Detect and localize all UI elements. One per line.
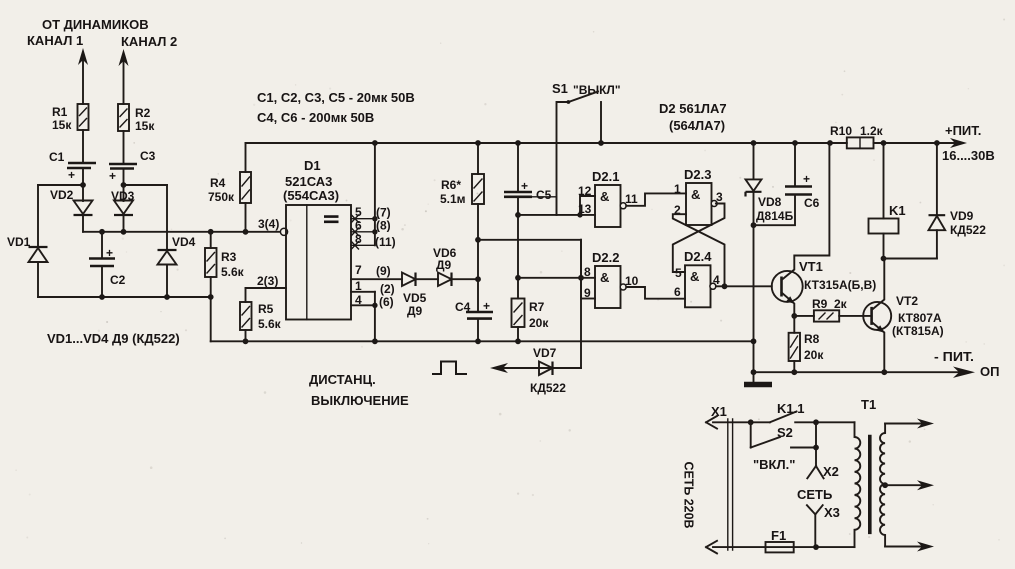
mains bottom wire with left arrow <box>713 546 855 548</box>
junction VD6/C4 <box>475 276 481 282</box>
svg-text:C1: C1 <box>49 150 65 164</box>
wire pin 12 tie <box>580 196 595 215</box>
wire bottom bus y297 <box>38 296 211 298</box>
svg-text:"ВЫКЛ": "ВЫКЛ" <box>573 83 621 97</box>
svg-text:(8): (8) <box>376 219 391 233</box>
resistor R8 <box>789 316 825 362</box>
pin 7 output wire <box>351 278 402 280</box>
svg-text:3: 3 <box>716 190 723 204</box>
wire pin 8 line <box>518 277 595 279</box>
op-amp comparator D1 <box>283 158 351 320</box>
svg-text:5.1м: 5.1м <box>440 192 466 206</box>
svg-text:- ПИТ.: - ПИТ. <box>934 349 974 364</box>
diode VD6 <box>433 246 457 286</box>
pulse symbol <box>432 362 467 375</box>
capacitor C4 <box>455 299 493 319</box>
svg-text:КД522: КД522 <box>950 223 986 237</box>
svg-text:(КТ815А): (КТ815А) <box>892 324 944 338</box>
diode VD7 <box>530 346 566 395</box>
pin 8 wire with X <box>351 232 396 249</box>
wire bus y232 to comparator input <box>83 231 281 233</box>
svg-text:12: 12 <box>578 184 592 198</box>
svg-text:КАНАЛ 2: КАНАЛ 2 <box>121 34 177 49</box>
+ПИТ arrow <box>950 138 967 148</box>
svg-text:4: 4 <box>355 293 362 307</box>
junction C6 line <box>751 222 757 228</box>
svg-text:C2: C2 <box>110 273 126 287</box>
svg-text:2(3): 2(3) <box>257 274 278 288</box>
capacitor C1 <box>49 150 96 182</box>
wire D2.2 feed y240 <box>478 239 581 241</box>
resistor R10 <box>830 124 884 148</box>
svg-text:VD5: VD5 <box>403 291 427 305</box>
svg-text:10: 10 <box>625 274 639 288</box>
svg-text:3(4): 3(4) <box>258 217 279 231</box>
svg-text:ОП: ОП <box>980 364 999 379</box>
ОП arrow <box>953 367 975 378</box>
svg-text:&: & <box>691 187 700 202</box>
junction R4 bottom <box>243 229 249 235</box>
svg-text:5.6к: 5.6к <box>258 317 282 331</box>
svg-text:C6: C6 <box>804 196 820 210</box>
svg-text:(9): (9) <box>376 264 391 278</box>
transistor VT2 <box>863 259 943 373</box>
secondary bottom lead arrow <box>885 546 924 548</box>
svg-text:C3: C3 <box>140 149 156 163</box>
wire bus right y185 <box>124 184 168 186</box>
wire R2 to C3 <box>123 131 125 163</box>
diode VD3 <box>111 189 135 215</box>
svg-text:КТ315А(Б,В): КТ315А(Б,В) <box>804 278 876 292</box>
connector X2 <box>807 422 839 479</box>
svg-text:D2.3: D2.3 <box>684 167 711 182</box>
logic gate D2.4 <box>674 249 720 307</box>
capacitor C3 <box>109 149 156 183</box>
capacitor C2 <box>89 246 126 287</box>
svg-text:&: & <box>600 189 609 204</box>
svg-text:"ВКЛ.": "ВКЛ." <box>753 457 795 472</box>
relay contact K1.1 <box>748 401 819 425</box>
wire pin 9 line <box>581 298 595 300</box>
resistor R9 <box>794 297 847 322</box>
wire bus left y185 <box>38 184 83 186</box>
junction R3 bus <box>208 294 214 300</box>
svg-text:&: & <box>600 270 609 285</box>
logic gate D2.3 <box>674 167 723 225</box>
wire C6 bottom to VD8 <box>754 195 796 226</box>
diode VD1 <box>7 235 48 262</box>
wire VD6 to RC node <box>452 278 479 280</box>
svg-text:D2.1: D2.1 <box>592 169 619 184</box>
node arrow channel 2 output <box>123 56 125 104</box>
svg-text:СЕТЬ: СЕТЬ <box>797 487 832 502</box>
svg-text:C4: C4 <box>455 300 471 314</box>
svg-text:R8: R8 <box>804 332 820 346</box>
svg-text:+: + <box>521 179 528 193</box>
wire pin 10 to D2.4 pin 6 <box>626 287 685 299</box>
wire VD9 bottom <box>936 230 938 258</box>
wire C5 plate jog <box>532 197 557 215</box>
svg-text:VD4: VD4 <box>172 235 196 249</box>
svg-text:15к: 15к <box>135 119 155 133</box>
resistor R7 <box>512 299 550 331</box>
svg-text:R7: R7 <box>529 300 545 314</box>
svg-text:4: 4 <box>713 273 720 287</box>
svg-text:5: 5 <box>355 205 362 219</box>
wire VD2 to bus <box>82 215 84 232</box>
pin 6 wire with X <box>351 219 391 236</box>
svg-text:Д9: Д9 <box>407 304 423 318</box>
wire D2.2 input riser <box>580 240 582 299</box>
svg-text:D2.2: D2.2 <box>592 250 619 265</box>
svg-text:VD9: VD9 <box>950 209 974 223</box>
resistor R2 <box>118 104 155 133</box>
svg-text:16....30В: 16....30В <box>942 148 995 163</box>
svg-text:9: 9 <box>584 286 591 300</box>
svg-text:1: 1 <box>355 279 362 293</box>
junction R3 top <box>208 229 214 235</box>
junction C2 bottom <box>99 294 105 300</box>
svg-text:(564ЛА7): (564ЛА7) <box>669 118 725 133</box>
svg-text:C5: C5 <box>536 188 552 202</box>
connector X1 pins <box>728 419 733 550</box>
junction VD4 bottom <box>164 294 170 300</box>
svg-text:15к: 15к <box>52 118 72 132</box>
svg-text:(11): (11) <box>375 235 396 249</box>
wire pins 1/4 to ground <box>374 292 376 342</box>
wire VD5 to VD6 <box>416 278 439 280</box>
wire rail after R10 <box>874 142 961 144</box>
wire VD1 branch <box>37 185 39 247</box>
svg-text:R6*: R6* <box>441 178 461 192</box>
transformer T1 primary winding <box>855 422 861 547</box>
junction C5/pin13 <box>515 212 521 218</box>
svg-text:VT1: VT1 <box>799 259 823 274</box>
fuse F1 <box>766 528 794 552</box>
svg-text:+: + <box>68 168 75 182</box>
wire K1 bottom <box>883 234 885 259</box>
transistor VT1 <box>772 143 877 316</box>
diode VD9 <box>929 140 987 237</box>
wire R4 top to +rail <box>245 143 247 172</box>
wire R3 bottom / ground drop <box>210 277 212 341</box>
junction rail R6 <box>475 140 481 146</box>
wire VD7 riser to pin 9 <box>580 240 582 368</box>
svg-text:VD7: VD7 <box>533 346 557 360</box>
pin 5 wire with X <box>351 205 391 222</box>
junction -пит bus <box>751 369 757 375</box>
svg-text:КТ807А: КТ807А <box>898 311 942 325</box>
diode VD5 <box>402 273 427 319</box>
wire VD3 top <box>123 185 125 201</box>
svg-text:11: 11 <box>625 192 638 206</box>
wire +supply rail y143 <box>246 142 847 144</box>
diode VD2 <box>50 188 93 215</box>
svg-text:VD8: VD8 <box>758 195 782 209</box>
svg-text:+: + <box>106 246 113 260</box>
junction VT2 emitter ground <box>881 369 887 375</box>
svg-text:K1: K1 <box>889 203 906 218</box>
resistor R1 <box>52 104 89 132</box>
secondary center tap arrow <box>882 482 888 488</box>
wire R1 to C1 <box>82 130 84 162</box>
zener diode VD8 <box>746 140 794 223</box>
svg-text:VD1: VD1 <box>7 235 31 249</box>
svg-text:(554СА3): (554СА3) <box>283 188 339 203</box>
junction C3/VD3 <box>121 182 127 188</box>
ground symbol <box>744 382 772 388</box>
svg-text:D1: D1 <box>304 158 321 173</box>
svg-text:X2: X2 <box>823 464 839 479</box>
wire C5 bottom <box>517 197 519 299</box>
svg-text:СЕТЬ 220В: СЕТЬ 220В <box>682 462 697 529</box>
svg-text:(2): (2) <box>380 282 395 296</box>
junction rail D1 pins <box>372 140 378 146</box>
remote off arrow <box>503 367 581 369</box>
svg-text:8: 8 <box>355 232 362 246</box>
wire VD1 to bottom bus <box>37 262 39 297</box>
svg-text:VT2: VT2 <box>896 294 918 308</box>
svg-text:2к: 2к <box>834 297 848 311</box>
svg-text:+: + <box>483 299 490 313</box>
svg-text:20к: 20к <box>529 316 549 330</box>
svg-text:(7): (7) <box>376 206 391 220</box>
wire C2 bottom <box>101 267 103 297</box>
svg-text:20к: 20к <box>804 348 824 362</box>
wire VD4 to bottom bus <box>166 265 168 298</box>
logic gate D2.2 <box>584 250 639 308</box>
wire C2 top <box>101 232 103 257</box>
wire R8 bottom <box>793 361 795 372</box>
wire R9 to VT2 base <box>839 315 871 317</box>
svg-text:D2.4: D2.4 <box>684 249 712 264</box>
svg-text:R4: R4 <box>210 176 226 190</box>
svg-text:Д814Б: Д814Б <box>756 209 794 223</box>
svg-text:D2 561ЛА7: D2 561ЛА7 <box>659 101 727 116</box>
svg-text:(6): (6) <box>379 295 394 309</box>
svg-text:7: 7 <box>355 263 362 277</box>
svg-text:5: 5 <box>675 266 682 280</box>
wire VD8 down to ground <box>753 192 755 382</box>
wire C1 to node <box>82 169 84 185</box>
junction R6/D2.2 line <box>475 237 481 243</box>
wire pin 2(3) <box>246 287 287 289</box>
svg-text:C1, C2, C3, C5 - 20мк 50В: C1, C2, C3, C5 - 20мк 50В <box>257 90 415 105</box>
pin 4 wire <box>351 304 375 306</box>
svg-text:VD2: VD2 <box>50 188 74 202</box>
svg-text:F1: F1 <box>771 528 786 543</box>
svg-text:S1: S1 <box>552 81 568 96</box>
svg-text:КД522: КД522 <box>530 381 566 395</box>
svg-text:VD3: VD3 <box>111 189 135 203</box>
svg-text:+ПИТ.: +ПИТ. <box>945 123 981 138</box>
wire C3 to node <box>123 170 125 185</box>
switch S2 <box>751 422 816 472</box>
connector X3 <box>807 505 840 547</box>
resistor R3 <box>205 232 245 279</box>
svg-text:5.6к: 5.6к <box>221 265 245 279</box>
junction C5/pin8 line <box>515 275 521 281</box>
svg-text:750к: 750к <box>208 190 235 204</box>
node 3(4) input circle <box>280 228 287 235</box>
svg-text:T1: T1 <box>861 397 876 412</box>
mains top wire with left arrow <box>713 421 770 423</box>
pin 1 wire <box>351 291 375 293</box>
junction VD3 bus <box>121 229 127 235</box>
ground bus y341 <box>211 340 754 342</box>
wire VD2 top <box>82 185 84 201</box>
svg-text:R5: R5 <box>258 302 274 316</box>
relay coil K1 <box>869 140 906 233</box>
wire VD4 branch top <box>166 185 168 250</box>
svg-text:1: 1 <box>674 182 681 196</box>
svg-text:R3: R3 <box>221 250 237 264</box>
svg-text:КАНАЛ 1: КАНАЛ 1 <box>27 33 83 48</box>
resistor R4 <box>208 172 251 232</box>
wire C4 to ground bus <box>477 320 479 342</box>
junction R10 left / VT1 collector <box>827 140 833 146</box>
svg-text:ОТ ДИНАМИКОВ: ОТ ДИНАМИКОВ <box>42 17 149 32</box>
junction C2 top <box>99 229 105 235</box>
svg-text:R10: R10 <box>830 124 852 138</box>
capacitor C6 <box>785 140 820 210</box>
resistor R5 <box>240 288 282 331</box>
svg-text:R2: R2 <box>135 106 151 120</box>
svg-text:X1: X1 <box>711 404 727 419</box>
wire pin 4 output <box>716 285 772 287</box>
switch S1 <box>552 81 621 215</box>
capacitor C5 <box>504 140 552 202</box>
svg-text:1.2к: 1.2к <box>860 124 884 138</box>
junction VT1 emitter / R9 R8 <box>791 313 797 319</box>
transformer T1 core <box>868 435 872 534</box>
wire pins 5/6/8 to rail <box>374 143 376 245</box>
junction R5 ground <box>243 338 249 344</box>
svg-text:6: 6 <box>674 285 681 299</box>
svg-text:R9: R9 <box>812 297 828 311</box>
svg-text:VD1...VD4 Д9 (КД522): VD1...VD4 Д9 (КД522) <box>47 331 180 346</box>
junction ground bus <box>751 338 757 344</box>
wire VD3 to bus <box>123 215 125 232</box>
wire pins 12/13 line <box>518 214 595 216</box>
resistor R6 <box>440 143 484 206</box>
svg-text:X3: X3 <box>824 505 840 520</box>
svg-text:+: + <box>109 169 116 183</box>
-ПИТ bus <box>754 371 961 373</box>
junction C1/VD2 <box>80 182 86 188</box>
svg-text:ВЫКЛЮЧЕНИЕ: ВЫКЛЮЧЕНИЕ <box>311 393 409 408</box>
svg-text:8: 8 <box>584 265 591 279</box>
wire R5 bottom <box>245 330 247 341</box>
secondary top lead arrow <box>885 423 924 425</box>
transformer T1 secondary winding <box>880 424 885 547</box>
node arrow channel 1 output <box>82 55 84 104</box>
wire K1/VD9 bottom link <box>884 258 937 260</box>
svg-text:13: 13 <box>578 202 592 216</box>
svg-text:C4, C6 - 200мк 50В: C4, C6 - 200мк 50В <box>257 110 374 125</box>
svg-text:ДИСТАНЦ.: ДИСТАНЦ. <box>309 372 376 387</box>
wire R7 bottom <box>517 327 519 341</box>
svg-text:R1: R1 <box>52 105 68 119</box>
svg-text:521СА3: 521СА3 <box>285 174 332 189</box>
wire R6 bottom to C4 <box>477 204 479 311</box>
svg-text:Д9: Д9 <box>436 258 452 272</box>
wire pin 11 to D2.3 pin 1 <box>626 193 686 205</box>
svg-text:6: 6 <box>355 219 362 233</box>
logic gate D2.1 <box>578 169 638 227</box>
wire latch cross-coupling <box>673 204 725 287</box>
svg-text:+: + <box>803 172 810 186</box>
svg-text:&: & <box>690 269 699 284</box>
diode VD4 <box>158 235 196 265</box>
